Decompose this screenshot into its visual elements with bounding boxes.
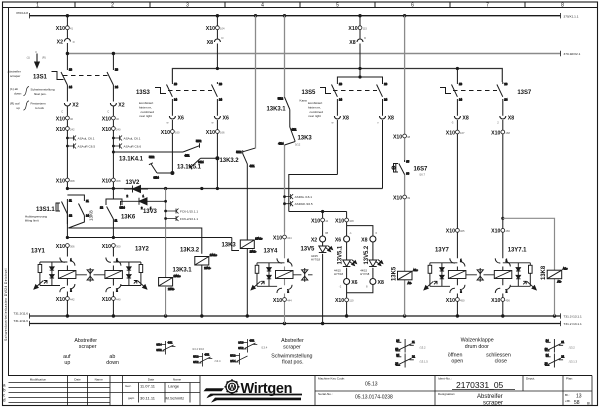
svg-text:13Y2: 13Y2 xyxy=(135,247,150,253)
svg-text:24: 24 xyxy=(504,97,507,101)
svg-text:13V5.1: 13V5.1 xyxy=(338,245,344,264)
svg-text:ab: ab xyxy=(109,354,115,360)
svg-text:4/11: 4/11 xyxy=(185,154,191,158)
connector X6 LED col bottom xyxy=(339,279,358,289)
junction dot x322.6 tap xyxy=(321,210,324,213)
svg-text:2: 2 xyxy=(111,3,114,9)
svg-text:308: 308 xyxy=(70,179,75,183)
svg-text:Kana: Kana xyxy=(300,99,308,103)
svg-text:Deput.: Deput. xyxy=(526,377,535,381)
bus T31.3 xyxy=(30,315,561,317)
svg-text:hinten re,: hinten re, xyxy=(139,105,152,109)
connector X8 top x360 xyxy=(349,36,366,46)
svg-text:12: 12 xyxy=(100,206,103,210)
svg-text:ASAuR C6.5: ASAuR C6.5 xyxy=(78,145,96,149)
wires 13S5 contacts to X8 xyxy=(337,99,382,189)
terminal X10-115 xyxy=(348,26,367,32)
svg-text:4/11: 4/11 xyxy=(250,164,256,168)
switch 13S7 contact 23-24 xyxy=(497,82,508,102)
svg-text:/13.4 9/16: /13.4 9/16 xyxy=(192,347,204,351)
connector X8 LED col top xyxy=(361,231,377,243)
svg-text:444: 444 xyxy=(287,298,292,302)
svg-text:/13.2: /13.2 xyxy=(420,346,426,350)
svg-text:3: 3 xyxy=(186,3,189,9)
junction dots top bus xyxy=(66,14,459,70)
terminal X10-40 col1 xyxy=(56,116,74,122)
svg-text:23: 23 xyxy=(115,67,118,71)
svg-text:24: 24 xyxy=(384,97,387,101)
wires 13S3 contacts to X6 terminals xyxy=(172,99,217,189)
13S3 actuator xyxy=(155,88,166,94)
terminal X10-108 xyxy=(335,218,354,224)
svg-text:scraper: scraper xyxy=(283,345,301,351)
13S5 top bracket xyxy=(337,77,382,82)
connector X8 top xyxy=(207,36,224,46)
13S5 actuator xyxy=(320,88,331,94)
svg-text:Name: Name xyxy=(173,377,182,381)
svg-text:Name: Name xyxy=(95,377,104,381)
svg-text:Schwimmstellung: Schwimmstellung xyxy=(271,353,312,359)
terminal X10-306 xyxy=(56,244,75,250)
svg-text:X10: X10 xyxy=(491,229,500,235)
svg-text:T31.2 /13.1.1: T31.2 /13.1.1 xyxy=(564,322,583,326)
svg-text:/13.1.5: /13.1.5 xyxy=(420,360,429,364)
junction dot 13S5 bracket xyxy=(358,75,361,78)
svg-text:Schwimmstellung: Schwimmstellung xyxy=(31,88,55,92)
svg-text:14: 14 xyxy=(339,97,342,101)
svg-text:auf: auf xyxy=(63,354,71,360)
relay contact 13.1K4.1 xyxy=(183,139,202,158)
13S5 mechanical link dashed xyxy=(333,90,377,92)
svg-text:X8: X8 xyxy=(361,237,367,243)
svg-text:ASDbR /16.5: ASDbR /16.5 xyxy=(295,202,313,206)
svg-text:X8: X8 xyxy=(207,40,213,46)
svg-text:442: 442 xyxy=(70,297,75,301)
svg-text:240: 240 xyxy=(116,127,121,131)
svg-text:float pos.: float pos. xyxy=(282,360,304,366)
svg-text:5/12: 5/12 xyxy=(230,354,236,358)
svg-text:1: 1 xyxy=(36,3,39,9)
svg-text:Walzenklappe: Walzenklappe xyxy=(461,338,494,344)
junction dots bottom buses xyxy=(66,314,557,325)
svg-text:X2: X2 xyxy=(57,40,63,46)
column ticks top xyxy=(75,2,525,8)
svg-text:Bl.: Bl. xyxy=(587,402,591,406)
svg-text:close: close xyxy=(495,359,507,365)
svg-text:up: up xyxy=(64,360,70,366)
border frame inner left line xyxy=(8,8,10,376)
wire col2 top xyxy=(112,54,114,71)
connector X8 col 502 xyxy=(497,116,514,125)
svg-text:/13.4: /13.4 xyxy=(261,345,267,349)
svg-text:24: 24 xyxy=(546,353,549,357)
relay coil 13K3.2 xyxy=(195,253,218,270)
terminal X10-110 xyxy=(335,298,354,304)
solenoid valve 13Y4 xyxy=(251,258,293,293)
terminal X10-240 col2 xyxy=(102,127,121,133)
svg-text:13: 13 xyxy=(174,82,177,86)
svg-text:308: 308 xyxy=(116,179,121,183)
svg-text:Serial-No.:: Serial-No.: xyxy=(318,392,333,396)
svg-text:13V5: 13V5 xyxy=(301,247,316,253)
svg-text:/16.7: /16.7 xyxy=(419,173,425,177)
svg-text:combined: combined xyxy=(141,110,155,114)
svg-text:X10: X10 xyxy=(273,235,282,241)
svg-text:9/18: 9/18 xyxy=(156,348,162,352)
limit switch 16S7 xyxy=(392,160,410,176)
Wirtgen logo xyxy=(204,379,303,402)
svg-text:T31.3/11.6: T31.3/11.6 xyxy=(13,312,28,316)
svg-text:104: 104 xyxy=(220,27,225,31)
contact cross-ref cluster 13K5 xyxy=(395,339,415,368)
svg-text:12: 12 xyxy=(69,214,72,218)
svg-text:W: W xyxy=(229,383,236,392)
svg-text:30.11.11: 30.11.11 xyxy=(140,395,156,400)
svg-text:8: 8 xyxy=(561,3,564,9)
svg-text:X10: X10 xyxy=(56,244,65,250)
svg-text:X2: X2 xyxy=(311,237,317,243)
terminal X10-41 xyxy=(56,26,74,32)
svg-text:7: 7 xyxy=(486,3,489,9)
svg-text:5/12: 5/12 xyxy=(295,143,301,147)
svg-text:2/A2-: 2/A2- xyxy=(204,266,211,270)
terminal X10-242 col1 xyxy=(56,127,75,133)
svg-text:14: 14 xyxy=(396,339,399,343)
svg-text:9/14: 9/14 xyxy=(120,206,126,210)
valve column lower wires xyxy=(457,267,502,317)
relay coil 13K3 xyxy=(240,237,263,254)
branch to 13K8 coil xyxy=(501,217,554,316)
hydraulic link bowtie 13Y4 xyxy=(293,268,313,282)
terminal X10-440 xyxy=(102,297,121,303)
svg-text:up: up xyxy=(17,106,21,110)
wire x360 top xyxy=(359,16,361,77)
svg-text:4/11: 4/11 xyxy=(204,352,210,356)
svg-text:3/14: 3/14 xyxy=(198,160,204,164)
connector X2 top xyxy=(57,39,76,46)
svg-text:41: 41 xyxy=(70,27,73,31)
svg-text:13K6: 13K6 xyxy=(121,215,136,221)
terminal X10-444 xyxy=(273,298,292,304)
label Abstreifer scraper Schwimmstellung float pos. xyxy=(271,338,312,366)
svg-text:Plan:: Plan: xyxy=(566,377,573,381)
title block right horizontal xyxy=(315,376,592,406)
svg-text:C: C xyxy=(61,110,63,114)
svg-text:A1+: A1+ xyxy=(563,267,568,271)
svg-text:450: 450 xyxy=(460,298,465,302)
plug ASDbL xyxy=(283,194,312,199)
svg-text:95: 95 xyxy=(406,160,409,164)
switch 13S7 contact 13-14 xyxy=(452,82,463,102)
svg-text:5/12: 5/12 xyxy=(236,150,242,154)
svg-text:466: 466 xyxy=(505,229,510,233)
svg-text:13K3: 13K3 xyxy=(298,136,313,142)
svg-text:5/12: 5/12 xyxy=(196,139,202,143)
svg-text:X10: X10 xyxy=(491,130,500,136)
terminal X10-160 xyxy=(161,130,180,136)
title block right verticals xyxy=(315,376,563,406)
svg-text:23: 23 xyxy=(545,362,548,366)
svg-text:13K3.1: 13K3.1 xyxy=(173,268,193,274)
wire LED mid columns xyxy=(347,242,373,279)
svg-text:344: 344 xyxy=(287,236,292,240)
svg-text:FC6-2/13.1.1: FC6-2/13.1.1 xyxy=(180,217,198,221)
svg-text:58: 58 xyxy=(574,400,580,406)
svg-text:99: 99 xyxy=(407,196,410,200)
svg-text:1/A1+: 1/A1+ xyxy=(210,253,218,257)
svg-text:5/12: 5/12 xyxy=(278,97,284,101)
svg-text:456: 456 xyxy=(505,298,510,302)
svg-text:w: w xyxy=(167,122,169,125)
node y237.5 wire to 13K3 xyxy=(66,236,239,251)
svg-text:13: 13 xyxy=(339,82,342,86)
svg-text:2/A2-: 2/A2- xyxy=(168,287,175,291)
svg-text:/13.1.3: /13.1.3 xyxy=(569,360,578,364)
small ref text 13V5 xyxy=(311,254,320,262)
svg-text:13: 13 xyxy=(395,347,398,351)
svg-text:108: 108 xyxy=(349,219,354,223)
svg-text:23: 23 xyxy=(219,82,222,86)
svg-text:13: 13 xyxy=(459,82,462,86)
svg-text:Designation:: Designation: xyxy=(438,392,455,396)
svg-text:13Y4: 13Y4 xyxy=(264,249,279,255)
solenoid valve 13Y7.1 xyxy=(494,258,536,293)
connector X6 col 217 xyxy=(212,116,229,125)
svg-text:X10: X10 xyxy=(56,116,65,122)
svg-text:Festsetzen: Festsetzen xyxy=(31,102,46,106)
relay contacts 13K3.1/13K3 on riser 284.5 xyxy=(278,97,297,146)
connector X8 LED col bottom xyxy=(366,279,384,289)
svg-text:Bl.:: Bl.: xyxy=(565,393,570,397)
svg-text:/13.2: /13.2 xyxy=(569,346,575,350)
LED 13V5.2 xyxy=(369,260,383,267)
svg-text:X10: X10 xyxy=(348,26,357,32)
svg-text:kombiniert: kombiniert xyxy=(308,101,322,105)
contact cross-ref cluster 13K3.2 xyxy=(193,352,212,366)
note Festsetzen to lock xyxy=(31,102,46,111)
svg-text:9/12: 9/12 xyxy=(193,360,199,364)
relay coil 13K8 xyxy=(547,267,568,284)
svg-text:schliessen: schliessen xyxy=(486,352,511,358)
svg-text:X10: X10 xyxy=(102,127,111,133)
svg-text:2170331_05: 2170331_05 xyxy=(456,380,504,390)
relay coil 13K5 xyxy=(398,268,419,285)
terminal X10-466 xyxy=(491,229,510,235)
svg-text:ASAuL C6.1: ASAuL C6.1 xyxy=(78,137,95,141)
wire coil feed x165.6 xyxy=(164,189,167,278)
svg-text:13V2: 13V2 xyxy=(126,180,141,186)
svg-text:open: open xyxy=(451,359,463,365)
distribution wire y188.5 xyxy=(66,187,383,190)
LED bracket top xyxy=(347,222,373,237)
svg-text:13K8: 13K8 xyxy=(89,210,94,221)
terminal X10-300 xyxy=(102,244,121,250)
plug FC6-2 xyxy=(164,216,198,221)
svg-text:C: C xyxy=(107,110,109,114)
svg-text:T31.2/11.6: T31.2/11.6 xyxy=(13,319,28,323)
svg-text:to lock: to lock xyxy=(35,106,44,110)
svg-text:X10: X10 xyxy=(446,298,455,304)
terminal X10-344 xyxy=(273,235,292,241)
svg-text:A1+: A1+ xyxy=(413,268,418,272)
svg-text:11: 11 xyxy=(561,340,564,344)
svg-text:4/11: 4/11 xyxy=(249,338,255,342)
svg-text:13K5: 13K5 xyxy=(392,266,398,281)
svg-text:3/16: 3/16 xyxy=(238,341,244,345)
connector X2 col2 xyxy=(107,103,125,114)
svg-text:115: 115 xyxy=(363,27,368,31)
svg-text:drum door: drum door xyxy=(465,344,489,350)
svg-text:ASAuL C6.1: ASAuL C6.1 xyxy=(124,137,141,141)
svg-text:hinten re,: hinten re, xyxy=(308,105,321,109)
limit switch 13S1.1 xyxy=(56,199,72,225)
svg-text:13K3.1: 13K3.1 xyxy=(267,107,287,113)
svg-text:A2-: A2- xyxy=(408,281,412,285)
terminal X10-166 xyxy=(206,130,225,136)
svg-text:X2: X2 xyxy=(118,103,124,109)
svg-text:Machine Key Code:: Machine Key Code: xyxy=(318,377,345,381)
svg-text:v.Bl.: v.Bl. xyxy=(565,399,571,403)
svg-text:X8: X8 xyxy=(462,116,468,122)
distribution wire y68.5 xyxy=(172,69,502,83)
contact cross-ref cluster 13K8 xyxy=(545,339,565,368)
svg-text:14: 14 xyxy=(69,85,72,89)
LED 13V5 xyxy=(319,246,333,253)
svg-text:5/12: 5/12 xyxy=(149,155,155,159)
plug FC6-1 xyxy=(164,209,198,214)
title block top line xyxy=(9,375,593,377)
connector X6 col 172 xyxy=(167,116,184,125)
label kombiniert hinten re. xyxy=(139,101,154,118)
svg-text:05.13.0174-0238: 05.13.0174-0238 xyxy=(355,395,393,401)
wire 13K3 to bus xyxy=(246,249,248,317)
svg-text:öffnen: öffnen xyxy=(448,352,463,358)
gray riser x255.5 xyxy=(255,16,257,149)
connector X8 col 382 xyxy=(377,116,394,125)
svg-text:160: 160 xyxy=(175,130,180,134)
terminal X10-465 xyxy=(446,229,465,235)
label kombiniert hinten re. 13S5 xyxy=(300,99,324,119)
svg-text:14: 14 xyxy=(546,339,549,343)
terminal X10-442 xyxy=(56,297,75,303)
svg-text:X10: X10 xyxy=(393,195,402,201)
13S3 mechanical link dashed xyxy=(168,90,212,92)
svg-text:23: 23 xyxy=(395,362,398,366)
svg-text:Abstreifer: Abstreifer xyxy=(8,69,21,73)
solenoid valve 13Y7 xyxy=(424,258,466,293)
svg-text:Date: Date xyxy=(74,377,81,381)
svg-text:44/15: 44/15 xyxy=(311,254,318,258)
svg-text:Date: Date xyxy=(148,377,155,381)
relay coil 13K3.1 xyxy=(159,274,181,291)
terminal X10-99 xyxy=(393,195,411,201)
svg-text:4/11: 4/11 xyxy=(168,340,174,344)
svg-text:96: 96 xyxy=(406,172,409,176)
svg-text:44: 44 xyxy=(325,219,328,223)
connector X2 col1 xyxy=(61,103,79,114)
svg-text:370/14.8: 370/14.8 xyxy=(16,11,28,15)
svg-text:4/14: 4/14 xyxy=(278,142,284,146)
svg-text:gepr.: gepr. xyxy=(128,396,135,400)
svg-text:13V5.2: 13V5.2 xyxy=(364,245,370,264)
svg-text:24: 24 xyxy=(219,97,222,101)
small ref text 13V5.1 xyxy=(334,269,343,277)
wire 13Y4 column xyxy=(284,232,286,324)
svg-text:242: 242 xyxy=(70,127,75,131)
title block left values xyxy=(125,384,135,400)
svg-text:X10: X10 xyxy=(56,178,65,184)
svg-text:13: 13 xyxy=(69,67,72,71)
svg-text:rear right: rear right xyxy=(309,114,322,118)
svg-text:X10: X10 xyxy=(161,130,170,136)
svg-text:13Y7: 13Y7 xyxy=(435,248,450,254)
svg-text:X6: X6 xyxy=(351,280,357,286)
svg-text:24: 24 xyxy=(396,353,399,357)
svg-text:HY7/18: HY7/18 xyxy=(311,258,320,262)
svg-text:13S5: 13S5 xyxy=(302,90,317,96)
svg-text:88: 88 xyxy=(325,231,328,235)
svg-text:X10: X10 xyxy=(102,297,111,303)
svg-text:scraper: scraper xyxy=(483,400,503,406)
contact cross-ref cluster 13K3b xyxy=(230,353,247,365)
wire col 217 top xyxy=(216,16,218,69)
wire y228 to 13K3.2 coil xyxy=(68,228,201,254)
svg-text:05.13: 05.13 xyxy=(365,382,378,388)
solenoid valve 13Y2 xyxy=(105,257,147,292)
svg-text:168: 168 xyxy=(505,131,510,135)
svg-text:Abstreifer: Abstreifer xyxy=(477,394,503,400)
title block left grid verticals xyxy=(68,376,201,406)
13S1 actuator xyxy=(52,72,64,80)
svg-text:(1): (1) xyxy=(27,56,30,60)
svg-text:13S7: 13S7 xyxy=(517,90,532,96)
plug ASAuL col1 xyxy=(66,136,95,141)
svg-text:Schwenkverteilerkasten DW24 De: Schwenkverteilerkasten DW24 Deichsel xyxy=(4,268,8,341)
svg-text:300: 300 xyxy=(116,244,121,248)
label Walzenklappe drum door xyxy=(448,338,511,365)
wire 13K6-NO to 13V3 line xyxy=(121,201,140,205)
svg-text:Gez.: Gez. xyxy=(125,384,132,388)
svg-text:X8: X8 xyxy=(349,40,355,46)
terminal X10-168 xyxy=(491,130,510,136)
changeover contact 13K6 xyxy=(100,199,125,224)
svg-text:166: 166 xyxy=(220,130,225,134)
svg-text:X8: X8 xyxy=(378,280,384,286)
svg-text:X10: X10 xyxy=(273,298,282,304)
svg-text:13K3: 13K3 xyxy=(222,243,237,249)
svg-text:40: 40 xyxy=(70,117,73,121)
terminal X10-98 xyxy=(393,134,411,140)
diode 13V2 xyxy=(124,186,148,198)
svg-text:X8: X8 xyxy=(508,116,514,122)
column numbers xyxy=(36,3,564,9)
svg-text:3/14: 3/14 xyxy=(154,175,160,179)
svg-text:X10: X10 xyxy=(56,127,65,133)
svg-text:X10: X10 xyxy=(102,178,111,184)
svg-text:scraper: scraper xyxy=(10,74,20,78)
switch 13S3 contact 13-14 xyxy=(167,82,178,102)
switch 13S1 contact 23-24 xyxy=(107,67,118,89)
svg-text:T31.3 /13.1.1: T31.3 /13.1.1 xyxy=(564,315,583,319)
svg-text:ASAuR C6.6: ASAuR C6.6 xyxy=(124,145,142,149)
svg-text:X6: X6 xyxy=(223,116,229,122)
svg-text:23: 23 xyxy=(384,82,387,86)
svg-text:Lange: Lange xyxy=(168,383,180,388)
svg-text:40: 40 xyxy=(116,117,119,121)
wire col2 mid xyxy=(112,85,114,316)
svg-text:13S1.1: 13S1.1 xyxy=(36,207,55,213)
svg-text:13: 13 xyxy=(576,394,582,400)
